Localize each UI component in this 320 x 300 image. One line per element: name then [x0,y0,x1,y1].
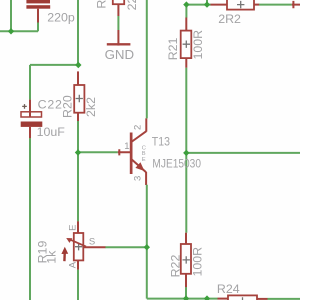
resistor R (cut off at top edge) [95,0,140,16]
wire collector net [146,0,148,118]
collector diagonal [132,131,146,141]
svg-text:R24: R24 [217,282,240,296]
wire base net [78,151,118,153]
adjust arrow [63,254,66,262]
svg-text:2k2: 2k2 [84,97,98,117]
wire [30,64,78,66]
resistor R24 (bottom right, cut off) [217,282,268,300]
svg-text:1k: 1k [44,250,58,264]
svg-text:E: E [142,157,146,163]
resistor R21 100R [166,18,205,68]
emitter arrowhead [136,163,143,170]
svg-text:R21: R21 [166,37,180,60]
svg-text:10uF: 10uF [37,125,66,139]
wire emitter net [146,185,148,299]
svg-text:100R: 100R [191,30,205,60]
svg-text:C22: C22 [38,97,63,111]
wire [10,0,12,31]
collector pin [145,118,147,131]
ground GND [105,30,135,62]
wire [185,287,187,298]
capacitor C 220p [26,0,74,24]
svg-text:R: R [95,0,109,9]
emitter pin [145,172,148,185]
wire [268,298,301,300]
emitter diagonal [132,159,147,172]
capacitor C22 10uF (electrolytic) [21,97,66,138]
svg-text:T13: T13 [152,136,170,149]
wire [117,16,119,30]
wire [185,5,187,18]
junction node top rail 2 [204,1,210,7]
svg-text:R22: R22 [168,255,182,278]
svg-text:3: 3 [133,176,144,181]
junction node bottom stub [204,295,210,300]
resistor 2R2 (horizontal, top right) [211,0,260,26]
potentiometer R19 1k [35,221,105,269]
wire [37,22,39,31]
wire mid rail right [186,152,300,154]
wire [0,30,38,32]
base pin [118,149,131,155]
wire [185,68,187,233]
svg-text:1: 1 [124,141,129,152]
wire net from top to junction at (78,65) [77,0,79,65]
transistor T13 MJE15030 [118,118,201,185]
pin of off-screen part (right edge) [292,1,300,8]
top rail wire [186,4,210,6]
svg-text:22: 22 [125,0,139,10]
junction node at base [75,149,81,155]
junction node at R20 top [75,62,81,68]
junction node bottom R22 [183,295,189,300]
wire [77,121,79,153]
svg-text:S: S [89,236,95,247]
svg-text:GND: GND [105,47,135,62]
junction node top rail 1 [183,1,189,7]
wire [29,65,31,100]
base bar [130,133,133,175]
svg-text:2R2: 2R2 [218,12,241,26]
junction node top-left [8,28,14,34]
wire [259,4,292,6]
wire stub up [206,0,208,5]
junction node S/emitter [144,244,150,250]
wire [29,138,31,300]
resistor R22 100R [168,233,204,288]
junction node mid rail [183,150,189,156]
wire [77,153,79,222]
svg-text:R20: R20 [61,95,75,118]
svg-text:MJE15030: MJE15030 [152,158,201,171]
resistor R20 2k2 [61,71,99,121]
svg-text:A: A [67,261,78,268]
svg-text:E: E [67,225,78,231]
svg-text:100R: 100R [191,247,205,277]
wiper pin S [83,246,105,248]
wire [77,270,79,300]
wire S net [105,246,146,248]
wire bottom rail [147,298,218,300]
svg-text:2: 2 [132,125,143,130]
svg-text:220p: 220p [47,10,75,24]
wiper diagonal arrow [69,239,86,247]
